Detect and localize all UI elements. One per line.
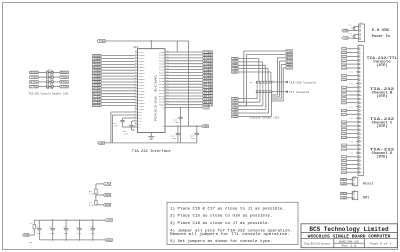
svg-text:Eng:BCS/Dinosaur: Eng:BCS/Dinosaur: [304, 242, 331, 246]
svg-text:GND: GND: [99, 142, 104, 145]
svg-text:.1uF: .1uF: [49, 232, 55, 235]
svg-text:C16: C16: [349, 25, 352, 27]
svg-text:NMI: NMI: [341, 193, 346, 196]
svg-text:CTSA: CTSA: [342, 156, 346, 159]
svg-text:RTSB: RTSB: [342, 167, 346, 170]
svg-text:(DTE): (DTE): [376, 63, 387, 67]
svg-text:.1uF: .1uF: [76, 232, 82, 235]
svg-text:NMI: NMI: [105, 204, 111, 207]
svg-text:GND: GND: [344, 30, 349, 33]
svg-text:3.3k: 3.3k: [89, 192, 95, 195]
svg-text:RTSA: RTSA: [342, 160, 346, 163]
svg-text:RXDA: RXDA: [342, 52, 346, 55]
svg-text:RTS3: RTS3: [93, 104, 100, 107]
svg-text:RES: RES: [105, 194, 111, 197]
svg-text:(DTE): (DTE): [376, 154, 387, 158]
svg-text:TXDB: TXDB: [342, 133, 346, 136]
svg-text:.1uF: .1uF: [171, 137, 177, 140]
svg-text:Page 4 of 7: Page 4 of 7: [370, 242, 392, 246]
svg-text:RTSB: RTSB: [342, 98, 346, 101]
svg-text:V-: V-: [138, 126, 141, 129]
svg-text:+5V: +5V: [344, 37, 349, 40]
svg-text:RXDA: RXDA: [342, 121, 346, 124]
svg-text:.1uF: .1uF: [190, 137, 196, 140]
svg-text:.1uF: .1uF: [36, 232, 42, 235]
svg-text:CTSB: CTSB: [342, 94, 346, 97]
svg-text:.1uF: .1uF: [63, 232, 69, 235]
svg-text:RTS0: RTS0: [31, 81, 38, 84]
svg-text:TIA-232 Console Enable (J4): TIA-232 Console Enable (J4): [29, 92, 69, 96]
svg-text:RXDB: RXDB: [342, 67, 346, 70]
svg-text:NMI: NMI: [363, 197, 369, 201]
svg-text:Console Select (J5): Console Select (J5): [250, 115, 280, 119]
svg-text:GND: GND: [203, 125, 208, 128]
svg-text:(DTE): (DTE): [376, 94, 387, 98]
svg-text:1) Place C16 & C17 as close to: 1) Place C16 & C17 as close to J1 as pos…: [170, 207, 285, 212]
svg-text:RTSA: RTSA: [232, 105, 237, 108]
svg-text:RXDB: RXDB: [342, 137, 346, 140]
svg-text:CTS0: CTS0: [31, 86, 38, 89]
svg-text:2) Place C15 as close to U10 a: 2) Place C15 as close to U10 as possible…: [170, 214, 273, 219]
svg-text:TXDA: TXDA: [61, 76, 68, 79]
svg-text:RXDC: RXDC: [342, 75, 346, 78]
svg-text:Power In: Power In: [372, 34, 391, 38]
svg-text:+5V: +5V: [204, 107, 209, 110]
svg-text:.1uF: .1uF: [173, 121, 179, 124]
svg-text:Reset: Reset: [363, 183, 374, 187]
svg-text:RXDA: RXDA: [61, 71, 68, 74]
svg-text:W65C816S SINGLE BOARD COMPUTER: W65C816S SINGLE BOARD COMPUTER: [308, 234, 391, 240]
svg-text:5) Set jumpers as shown for co: 5) Set jumpers as shown for console type…: [170, 239, 273, 244]
svg-text:RTSA: RTSA: [342, 90, 346, 93]
svg-text:Remove all jumpers for TTL con: Remove all jumpers for TTL console opera…: [170, 232, 290, 237]
svg-text:TIA-232 Console: TIA-232 Console: [289, 80, 316, 84]
svg-text:+5V: +5V: [105, 183, 111, 186]
svg-text:3.3k: 3.3k: [89, 204, 95, 207]
svg-text:CTSA: CTSA: [61, 86, 68, 89]
svg-text:TXDD: TXDD: [342, 148, 346, 151]
svg-text:GND: GND: [341, 183, 346, 186]
svg-text:TXDA: TXDA: [232, 98, 237, 101]
svg-text:.1uF: .1uF: [89, 232, 95, 235]
svg-text:3) Place C18 as close to J7 as: 3) Place C18 as close to J7 as possible.: [170, 221, 270, 226]
svg-text:TIA-232 Interface: TIA-232 Interface: [132, 149, 171, 154]
svg-text:CTSC: CTSC: [342, 171, 346, 174]
svg-text:TXDA: TXDA: [342, 48, 346, 51]
svg-text:MAX238 ECWG: MAX238 ECWG: [155, 74, 158, 121]
svg-text:CTSA: CTSA: [342, 86, 346, 89]
svg-text:+5V: +5V: [287, 67, 293, 70]
svg-text:RES: RES: [341, 179, 346, 182]
svg-text:PWR: PWR: [24, 234, 29, 237]
svg-text:DWG/SN-02: DWG/SN-02: [339, 240, 360, 243]
svg-text:RXCA: RXCA: [342, 59, 346, 62]
svg-text:RXCA: RXCA: [342, 129, 346, 132]
svg-text:.1uF: .1uF: [123, 132, 129, 135]
svg-text:CTSD: CTSD: [342, 110, 346, 113]
svg-text:RXD0: RXD0: [31, 71, 38, 74]
svg-text:RXDA: RXDA: [232, 101, 237, 104]
svg-text:TXDD: TXDD: [342, 79, 346, 82]
svg-text:RTSD: RTSD: [342, 113, 346, 116]
svg-text:TXD0: TXD0: [31, 76, 38, 79]
svg-text:5.0 VDC: 5.0 VDC: [372, 28, 390, 32]
svg-text:GND: GND: [204, 104, 213, 107]
svg-text:CTSC: CTSC: [342, 102, 346, 105]
svg-text:.1uF: .1uF: [113, 124, 119, 127]
svg-text:+5V: +5V: [232, 116, 238, 119]
svg-text:TTL Console: TTL Console: [289, 90, 309, 94]
svg-text:GND: GND: [341, 197, 346, 200]
svg-text:GND: GND: [232, 71, 238, 74]
svg-text:RTSA: RTSA: [61, 81, 68, 84]
svg-text:TXD0: TXD0: [99, 40, 105, 43]
svg-text:C17: C17: [349, 33, 352, 35]
svg-text:TXCA: TXCA: [342, 125, 346, 128]
svg-text:+5V: +5V: [107, 219, 113, 222]
svg-text:CTSA: CTSA: [232, 108, 237, 111]
svg-text:TXDB: TXDB: [342, 63, 346, 66]
svg-text:GND: GND: [107, 239, 113, 242]
svg-text:RXDC: RXDC: [342, 144, 346, 147]
svg-text:U10: U10: [134, 46, 139, 49]
svg-text:TXCA: TXCA: [342, 55, 346, 58]
svg-text:(DTE): (DTE): [376, 124, 387, 128]
svg-text:Rev 1.0: Rev 1.0: [342, 245, 357, 248]
svg-text:BCS Technology Limited: BCS Technology Limited: [309, 226, 389, 233]
svg-text:CTSB: CTSB: [342, 164, 346, 167]
